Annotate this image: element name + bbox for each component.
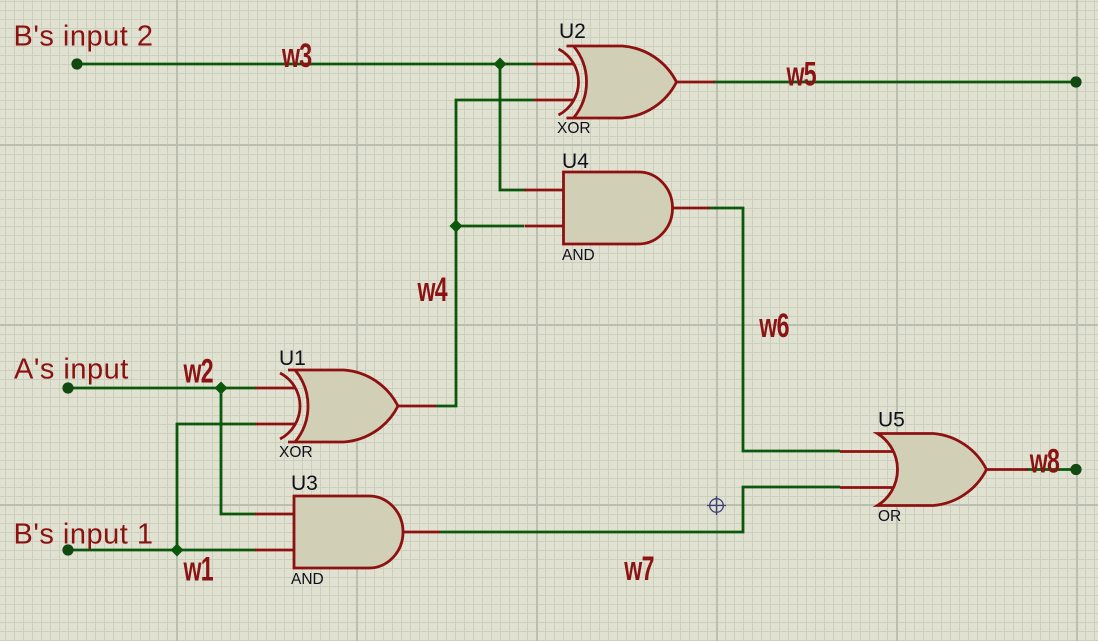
svg-text:XOR: XOR — [279, 444, 313, 461]
op gate U1 XOR — [256, 370, 437, 442]
node junction w2 — [215, 382, 228, 395]
svg-text:w8: w8 — [1029, 443, 1060, 480]
svg-text:AND: AND — [562, 247, 595, 264]
wire w8 (U5 output to right terminal) — [1026, 468, 1076, 471]
op gate U3 AND — [255, 496, 440, 568]
wire w1 (B's input 1 to U3 lower input) — [68, 549, 256, 552]
op gate U4 AND — [525, 172, 710, 244]
wire w3 branch down to U4 upper input — [500, 64, 526, 190]
svg-text:w4: w4 — [417, 272, 448, 309]
wire w5 (U2 output to right terminal, gap under label) — [713, 81, 1076, 84]
terminal w5 right end — [1070, 76, 1081, 87]
svg-text:U1: U1 — [279, 347, 306, 370]
svg-text:B's input 1: B's input 1 — [14, 519, 154, 551]
wire w3 (B's input 2 to U2 upper input) — [77, 63, 534, 66]
wire w4 (U1 output up to U2 lower input) — [436, 100, 534, 406]
svg-text:w7: w7 — [624, 551, 654, 588]
wire w7 (U3 output to U5 lower input) — [440, 487, 840, 532]
svg-text:U5: U5 — [878, 409, 905, 432]
svg-text:B's input 2: B's input 2 — [14, 21, 154, 53]
op gate U2 XOR — [534, 46, 715, 118]
svg-text:w3: w3 — [281, 38, 312, 75]
svg-text:w5: w5 — [786, 56, 817, 93]
node junction w1 — [171, 544, 184, 557]
svg-text:OR: OR — [878, 508, 901, 525]
svg-text:U2: U2 — [559, 20, 586, 43]
wire w2 (A's input to U1 upper input) — [68, 387, 256, 390]
svg-text:w6: w6 — [759, 308, 790, 345]
svg-text:w2: w2 — [183, 353, 213, 390]
svg-text:A's input: A's input — [14, 354, 129, 386]
svg-text:w1: w1 — [183, 551, 214, 588]
svg-text:U4: U4 — [562, 150, 589, 173]
terminal B's input 2 — [71, 58, 82, 69]
svg-text:U3: U3 — [291, 472, 318, 495]
wire w4 branch to U4 lower input — [456, 225, 524, 228]
wire w1 branch up to U1 lower input — [177, 424, 256, 550]
terminal w8 right end — [1070, 464, 1081, 475]
svg-text:AND: AND — [291, 571, 324, 588]
node junction w4/U4 — [450, 220, 463, 233]
origin marker crosshair — [707, 496, 726, 515]
terminal B's input 1 — [62, 544, 73, 555]
wire w6 (U4 output to U5 upper input) — [708, 208, 840, 451]
op gate U5 OR — [840, 434, 1028, 506]
terminal A's input — [62, 382, 73, 393]
wire w2 branch down to U3 upper input — [221, 388, 256, 514]
svg-text:XOR: XOR — [557, 120, 591, 137]
node junction at w3 branch — [494, 58, 507, 71]
